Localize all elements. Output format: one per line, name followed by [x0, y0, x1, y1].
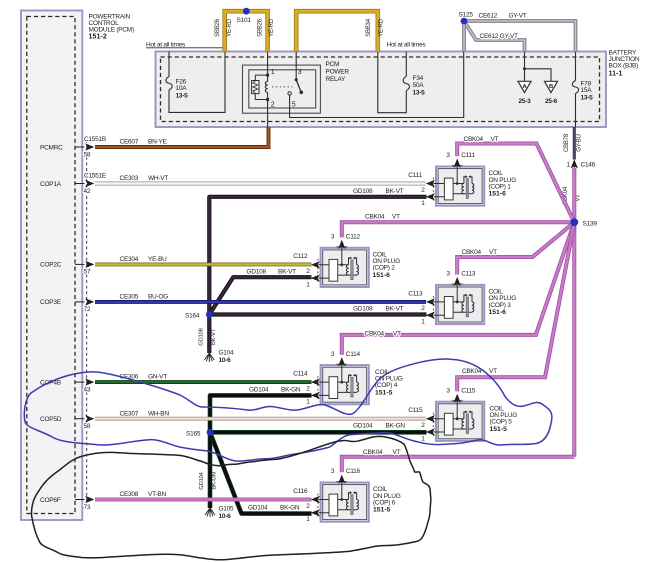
svg-text:151-5: 151-5 — [373, 507, 391, 514]
wire CE612 branch to triangles A B — [523, 52, 551, 82]
label S139 — [583, 220, 598, 227]
labels CBB78 GY-BU rotated — [564, 133, 582, 152]
label GD104 BK-GN (COP6 run) — [248, 505, 300, 512]
wire CBK04 VT to COP1 — [457, 144, 574, 223]
COP2 connector dash — [317, 259, 319, 284]
svg-text:10-6: 10-6 — [219, 357, 232, 364]
relay resistor R — [252, 75, 268, 99]
PCM pin COP3E 72 — [40, 298, 94, 313]
svg-text:S164: S164 — [185, 313, 200, 320]
coil on plug COP5 — [436, 402, 484, 441]
wire CE612 feed inside BJB to F78 — [572, 52, 578, 128]
svg-text:GD108: GD108 — [353, 305, 373, 312]
svg-text:CBK04: CBK04 — [462, 368, 482, 375]
svg-text:151-6: 151-6 — [489, 309, 507, 316]
label GD108 BK-VT (COP3 run) — [353, 305, 404, 312]
COP5 pin2 arrow — [426, 415, 436, 422]
wire CE308 VT-BN — [95, 498, 312, 502]
labels GD108 BK-VT rotated at G104 drop — [199, 328, 217, 345]
label CE612 GY-VT lower — [480, 33, 518, 40]
svg-text:CBK04: CBK04 — [365, 331, 385, 338]
svg-text:15A: 15A — [581, 87, 593, 94]
wire CBK04 VT to COP2 — [342, 222, 575, 237]
wire GD104 BK-GN branch to COP6 — [210, 432, 312, 513]
svg-text:F34: F34 — [413, 75, 424, 82]
svg-text:151-5: 151-5 — [375, 389, 393, 396]
svg-text:13-5: 13-5 — [413, 89, 426, 96]
wire CE303 WH-VT — [95, 182, 426, 186]
svg-text:25-6: 25-6 — [545, 98, 558, 105]
svg-text:C113: C113 — [461, 271, 476, 278]
svg-text:COP2C: COP2C — [40, 262, 62, 269]
svg-text:CBK04: CBK04 — [363, 449, 383, 456]
fuse F26 labels — [176, 78, 189, 99]
label S165 — [186, 430, 201, 437]
label G105 10-6 — [219, 506, 235, 521]
wire SBB26 YE-RD (S101 loop) — [225, 11, 268, 51]
svg-text:(COP) 4: (COP) 4 — [375, 382, 398, 389]
splice S164 — [206, 311, 213, 318]
PCM connector C1551 dashed line — [86, 140, 88, 503]
svg-text:CE612: CE612 — [479, 13, 498, 20]
PCM pin COP6F 73 — [40, 496, 94, 511]
wire CE304 YE-BU — [95, 262, 312, 266]
wire CBK04 VT to COP6 (bottom run) — [342, 457, 575, 472]
svg-text:BOX (BJB): BOX (BJB) — [609, 63, 639, 70]
label CE306 GN-VT — [120, 374, 168, 381]
PCM pin COP5D 58 — [40, 415, 94, 430]
label S125 — [459, 12, 474, 19]
COP2 title text — [373, 252, 401, 280]
svg-text:YE-BU: YE-BU — [148, 256, 167, 263]
svg-text:(COP) 6: (COP) 6 — [373, 499, 396, 506]
relay pin labels 1 2 — [271, 69, 275, 108]
svg-text:GD108: GD108 — [247, 268, 267, 275]
COP1 pin3 arrow + connector line — [452, 159, 463, 168]
COP5 pin3 arrow + connector line — [452, 394, 463, 403]
svg-text:COP3E: COP3E — [40, 299, 62, 306]
wire relay pin5 to S125 (in-box) — [290, 52, 464, 118]
refs 25-3 25-6 — [518, 98, 557, 105]
svg-text:25-3: 25-3 — [518, 98, 531, 105]
COP5 title text — [490, 405, 518, 433]
svg-text:RELAY: RELAY — [326, 76, 346, 83]
svg-text:BN-YE: BN-YE — [148, 139, 168, 146]
svg-text:YE-RD: YE-RD — [227, 18, 233, 37]
svg-text:CE612 GY-VT: CE612 GY-VT — [480, 33, 518, 40]
COP4 labels 3 C114 top — [331, 351, 361, 358]
COP5 pin1 arrow — [426, 428, 436, 435]
svg-text:GY-BU: GY-BU — [576, 134, 582, 151]
COP5 connector dash — [432, 413, 434, 438]
label CE307 WH-BN — [120, 410, 170, 417]
svg-text:CE607: CE607 — [120, 139, 139, 146]
COP1 pin2 arrow — [426, 180, 436, 187]
svg-text:10-6: 10-6 — [219, 513, 232, 520]
powertrain control module PCM box — [21, 11, 82, 521]
COP4 pin2 arrow — [311, 378, 321, 385]
wire SBB34 YE-RD loop — [296, 11, 378, 51]
label G104 10-6 — [219, 350, 235, 365]
svg-text:42: 42 — [84, 188, 91, 195]
COP2 pin3 arrow + connector line — [336, 240, 347, 249]
svg-text:GD108: GD108 — [199, 328, 205, 345]
annotation black pen loop — [32, 436, 431, 559]
COP1 labels 3 C111 top — [446, 152, 475, 159]
COP2 labels 3 C112 top — [331, 234, 361, 241]
svg-text:(COP) 2: (COP) 2 — [373, 265, 396, 272]
label C146 — [567, 162, 596, 169]
wire CBK04 VT to COP3 — [457, 222, 574, 274]
svg-text:COP5D: COP5D — [40, 416, 62, 423]
svg-text:MODULE (PCM): MODULE (PCM) — [89, 26, 134, 33]
svg-text:151-2: 151-2 — [89, 34, 107, 41]
COP1 connector dash — [432, 178, 434, 203]
COP2 pin1 arrow — [311, 274, 321, 281]
svg-text:VT: VT — [392, 214, 400, 221]
relay K (PCM power relay) box — [243, 65, 321, 113]
fuse F78 labels — [581, 80, 594, 101]
labels SBB34 YE-RD — [366, 18, 385, 37]
PCM pin PCMRC 58 — [40, 136, 106, 158]
COP3 pin3 arrow + connector line — [452, 277, 463, 286]
svg-text:VT: VT — [489, 368, 497, 375]
svg-text:151-5: 151-5 — [490, 426, 508, 433]
svg-text:43: 43 — [84, 386, 91, 393]
hot at all times label right — [387, 41, 427, 48]
svg-text:72: 72 — [84, 306, 91, 313]
hot at all times label left — [146, 41, 225, 48]
svg-text:WH-VT: WH-VT — [148, 175, 168, 182]
COP6 title text — [373, 486, 401, 514]
label GD104 BK-GN (COP4 run) — [249, 387, 301, 394]
wire CBK04 VT to COP5 — [457, 222, 574, 391]
fuse F34 wire path — [378, 52, 410, 113]
svg-text:CBK04: CBK04 — [464, 136, 484, 143]
svg-text:SBB26: SBB26 — [215, 18, 221, 37]
coil on plug COP4 — [321, 365, 369, 404]
wire CE607 BN-YE — [95, 127, 269, 147]
fuse F34 labels — [413, 75, 426, 97]
svg-text:COP1A: COP1A — [40, 181, 62, 188]
svg-text:50A: 50A — [413, 82, 425, 89]
svg-text:58: 58 — [84, 151, 91, 158]
label S164 — [185, 313, 200, 320]
svg-text:VT: VT — [489, 249, 497, 256]
svg-text:CBK04: CBK04 — [462, 249, 482, 256]
svg-text:13-5: 13-5 — [581, 95, 594, 102]
fuse F26 wire path — [166, 52, 225, 113]
wire CE612 GY-VT lower branch — [464, 21, 525, 52]
COP3 connector dash — [432, 296, 434, 321]
svg-text:C114: C114 — [346, 351, 361, 358]
COP6 pin1 arrow — [311, 509, 321, 516]
svg-text:CE303: CE303 — [120, 175, 139, 182]
svg-text:GN-VT: GN-VT — [148, 374, 167, 381]
svg-text:C111: C111 — [408, 172, 422, 179]
svg-text:VT: VT — [393, 449, 401, 456]
svg-text:S165: S165 — [186, 430, 201, 437]
COP4 pin3 arrow + connector line — [336, 357, 347, 366]
coil on plug COP1 — [436, 167, 484, 206]
svg-text:COP6F: COP6F — [40, 497, 61, 504]
label GD108 BK-VT (COP1 run) — [353, 188, 404, 195]
svg-text:57: 57 — [84, 269, 91, 276]
wire CE306 GN-VT — [95, 380, 312, 384]
PCM title text — [89, 13, 134, 40]
COP2 pin2 arrow — [311, 261, 321, 268]
relay switch pin3 pin5 — [288, 52, 303, 96]
wire GD104 BK-GN trunk to COP4 — [210, 395, 312, 432]
annotation blue pen loop — [24, 359, 552, 461]
label CE308 VT-BN — [120, 491, 167, 498]
svg-text:CBB78: CBB78 — [564, 133, 570, 152]
COP3 labels 3 C113 top — [446, 271, 476, 278]
svg-text:BK-VT: BK-VT — [278, 268, 296, 275]
svg-text:YE-RD: YE-RD — [379, 18, 385, 37]
svg-text:CE305: CE305 — [120, 294, 139, 301]
svg-text:GD108: GD108 — [353, 188, 373, 195]
wire CE307 WH-BN — [95, 417, 426, 421]
label CBK04 VT (COP2 feed) — [365, 214, 400, 221]
COP4 labels C114 2 1 left — [293, 371, 310, 406]
svg-text:C115: C115 — [408, 407, 423, 414]
svg-text:Hot at all times: Hot at all times — [146, 41, 186, 48]
svg-text:CE308: CE308 — [120, 491, 139, 498]
svg-text:C1551B: C1551B — [84, 136, 106, 143]
labels SBB26 YE-RD pair1 — [215, 18, 233, 37]
ground G104 — [204, 353, 214, 362]
labels SBB26 YE-RD pair2 — [258, 18, 276, 37]
svg-text:BK-GN: BK-GN — [280, 505, 300, 512]
wire CBB78 GY-BU — [573, 127, 576, 160]
relay mechanical link dotted — [272, 86, 293, 88]
label GD104 BK-GN (COP5 run) — [353, 423, 405, 430]
svg-text:BK-VT: BK-VT — [386, 305, 404, 312]
wire GD108 BK-VT trunk to COP1 — [209, 197, 426, 315]
svg-text:C112: C112 — [346, 234, 361, 241]
svg-text:C116: C116 — [293, 488, 308, 495]
svg-text:(COP) 5: (COP) 5 — [490, 419, 513, 426]
COP3 labels C113 2 1 left — [408, 290, 425, 325]
triangle B — [545, 81, 558, 92]
label CBK04 VT (COP3 feed) — [462, 249, 498, 256]
svg-text:BK-VT: BK-VT — [211, 328, 217, 345]
COP5 labels C115 2 1 left — [408, 407, 425, 442]
svg-text:151-6: 151-6 — [489, 191, 507, 198]
label S101 — [237, 17, 252, 24]
svg-text:C146: C146 — [581, 162, 596, 169]
svg-text:WH-BN: WH-BN — [148, 410, 169, 417]
labels CBK04 VT rotated below C146 — [563, 186, 582, 205]
svg-text:POWER: POWER — [326, 69, 350, 76]
PCM pin COP1A 42 — [40, 173, 107, 195]
BJB title text — [609, 50, 640, 78]
label CE612 GY-VT upper — [479, 13, 527, 20]
svg-text:10A: 10A — [176, 85, 188, 92]
svg-text:C115: C115 — [461, 387, 476, 394]
label CBK04 VT (COP6 feed) — [363, 449, 401, 456]
label CE305 BU-OG — [120, 294, 169, 301]
wire CBK04 VT to COP4 — [342, 222, 575, 354]
svg-text:S125: S125 — [459, 12, 474, 19]
ground G105 — [205, 508, 215, 517]
svg-text:C111: C111 — [461, 152, 475, 159]
connector C146 arrow pin1 — [571, 159, 578, 170]
splice S101 — [243, 8, 250, 15]
svg-text:GD104: GD104 — [353, 423, 373, 430]
wire CE305 BU-OG — [95, 300, 426, 304]
svg-text:5: 5 — [292, 101, 296, 108]
svg-text:GD104: GD104 — [199, 471, 205, 489]
COP3 pin2 arrow — [426, 298, 436, 305]
svg-text:BK-GN: BK-GN — [212, 472, 218, 489]
relay pin labels 3 5 — [292, 69, 302, 108]
wire GD108 BK-VT drop to G104 — [207, 315, 211, 354]
svg-text:C112: C112 — [293, 253, 308, 260]
svg-text:C113: C113 — [408, 290, 423, 297]
label CE607 BN-YE — [120, 139, 168, 146]
svg-text:Hot at all times: Hot at all times — [387, 41, 427, 48]
wire CE612 GY-VT upper — [464, 21, 576, 52]
splice S165 — [207, 429, 214, 436]
svg-text:BK-GN: BK-GN — [281, 387, 301, 394]
svg-text:BU-OG: BU-OG — [148, 294, 168, 301]
labels GD104 BK-GN rotated at G105 drop — [199, 471, 218, 489]
relay title — [326, 61, 350, 83]
svg-text:GD104: GD104 — [248, 505, 268, 512]
label CBK04 VT (COP4 feed) — [365, 331, 402, 338]
splice S125 — [461, 18, 468, 25]
PCM pin COP4B 43 — [40, 378, 94, 393]
svg-text:C1551E: C1551E — [84, 173, 107, 180]
wire CE612 GY-VT drop below S125 — [462, 21, 466, 52]
svg-text:VT: VT — [393, 331, 401, 338]
label CE303 WH-VT — [120, 175, 169, 182]
wire GD104 BK-GN branch to COP5 — [210, 430, 427, 435]
coil on plug COP3 — [436, 285, 484, 324]
COP1 pin1 arrow — [426, 193, 436, 200]
COP6 pin3 arrow + connector line — [336, 475, 347, 484]
svg-text:GY-VT: GY-VT — [509, 13, 527, 20]
COP6 connector dash — [317, 494, 319, 519]
COP4 title text — [375, 369, 403, 397]
svg-text:G104: G104 — [219, 350, 235, 357]
svg-text:GD104: GD104 — [249, 387, 269, 394]
COP5 labels 3 C115 top — [446, 387, 476, 394]
svg-text:SBB26: SBB26 — [258, 18, 264, 37]
svg-text:1: 1 — [271, 69, 275, 76]
COP1 labels C111 2 1 left — [408, 172, 425, 207]
wire CBK04 VT main vertical C146-S139-COP6 row — [572, 168, 576, 457]
svg-text:BK-VT: BK-VT — [386, 188, 404, 195]
svg-text:58: 58 — [84, 423, 91, 430]
svg-text:S139: S139 — [583, 220, 598, 227]
svg-text:S101: S101 — [237, 17, 252, 24]
label GD108 BK-VT (COP2 run) — [247, 268, 297, 275]
relay coil branch pin1-pin2 — [265, 52, 269, 128]
svg-text:SBB34: SBB34 — [366, 18, 372, 37]
battery junction box BJB — [156, 52, 607, 128]
coil on plug COP2 — [321, 248, 369, 287]
COP2 labels C112 2 1 left — [293, 253, 310, 288]
svg-text:YE-RD: YE-RD — [269, 18, 275, 37]
svg-text:(COP) 1: (COP) 1 — [489, 183, 512, 190]
COP1 title text — [489, 170, 517, 198]
COP4 connector dash — [317, 376, 319, 401]
label CE304 YE-BU — [120, 256, 168, 263]
svg-text:CE307: CE307 — [120, 410, 139, 417]
svg-text:(COP) 3: (COP) 3 — [489, 302, 512, 309]
COP6 pin2 arrow — [311, 496, 321, 503]
svg-text:PCM: PCM — [326, 61, 340, 68]
svg-text:C114: C114 — [293, 371, 308, 378]
label CBK04 VT (COP1 feed) — [464, 136, 499, 143]
svg-text:13-5: 13-5 — [176, 93, 189, 100]
svg-text:BK-GN: BK-GN — [386, 423, 406, 430]
COP6 labels C116 2 1 left — [293, 488, 310, 523]
splice S139 — [570, 218, 578, 226]
svg-text:G105: G105 — [219, 506, 235, 513]
wire GD104 BK-GN drop to G105 — [208, 432, 213, 508]
wire GD108 BK-VT branch to COP3 — [209, 312, 426, 316]
svg-text:B: B — [549, 84, 553, 90]
svg-text:CBK04: CBK04 — [365, 214, 385, 221]
COP3 title text — [489, 289, 517, 317]
svg-text:C116: C116 — [346, 468, 361, 475]
wire GD108 BK-VT branch to COP2 — [209, 277, 311, 314]
triangle A — [518, 81, 531, 92]
svg-text:3: 3 — [298, 69, 302, 76]
svg-text:11-1: 11-1 — [609, 70, 623, 77]
COP6 labels 3 C116 top — [331, 468, 361, 475]
svg-text:CE304: CE304 — [120, 256, 139, 263]
PCM pin COP2C 57 — [40, 261, 94, 276]
svg-text:73: 73 — [84, 504, 91, 511]
coil on plug COP6 — [321, 483, 369, 522]
label CBK04 VT (COP5 feed) — [462, 368, 497, 375]
svg-text:PCMRC: PCMRC — [40, 144, 63, 151]
svg-text:2: 2 — [271, 101, 275, 108]
COP3 pin1 arrow — [426, 312, 436, 319]
svg-text:151-6: 151-6 — [373, 272, 391, 279]
svg-text:VT: VT — [491, 136, 499, 143]
COP4 pin1 arrow — [311, 392, 321, 399]
svg-text:VT-BN: VT-BN — [148, 491, 166, 498]
